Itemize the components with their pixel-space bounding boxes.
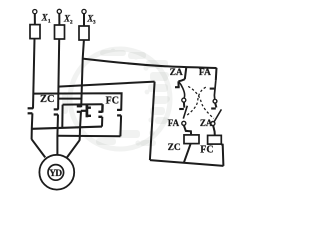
label X1 xyxy=(41,12,51,24)
coil ZC xyxy=(184,135,199,144)
mechanical linkage dashed cross (ZA to ZA-NC) xyxy=(188,86,214,118)
motor YD inner circle xyxy=(48,165,64,181)
wire: phase 1 below fuse to ZC contact xyxy=(33,39,35,109)
fuse X3 xyxy=(79,26,89,40)
wire: terminal 1 to fuse X1 xyxy=(34,14,36,25)
svg-text:FC: FC xyxy=(200,145,213,156)
wire: terminal 3 to fuse X3 xyxy=(83,14,85,26)
svg-text:2: 2 xyxy=(70,19,73,25)
motor YD outer circle xyxy=(39,155,74,190)
terminal circle phase 1 xyxy=(33,10,37,14)
contactor ZC main contact, phase 2 (lower tick) xyxy=(54,113,58,115)
svg-text:ZC: ZC xyxy=(168,143,181,153)
label X2 xyxy=(63,13,73,25)
wire: phase 1 below ZC contact to motor lead xyxy=(31,113,34,139)
wire: FC top bar xyxy=(63,103,103,105)
wire: control feed line from phase 3 (top line to right) xyxy=(83,59,217,68)
wire: line A from phase 2 to control return riser xyxy=(58,82,154,87)
wire: bus2 from phase 2 to FC right contact xyxy=(57,135,120,138)
wire: ZA NC to FC coil xyxy=(213,126,215,136)
contactor ZC main contact, phase 1 (lower tick) xyxy=(28,112,33,114)
wire: FA button to ZA NC contact xyxy=(215,103,216,107)
wire: control bottom line xyxy=(150,160,224,166)
contactor FC middle contact column (lower hook) xyxy=(98,116,102,118)
svg-text:FC: FC xyxy=(106,96,119,107)
pushbutton ZA (NO) fixed tick xyxy=(175,86,180,88)
wire: phase 3 slanted motor lead xyxy=(67,140,80,157)
terminal circle phase 3 xyxy=(82,9,86,13)
label X3 xyxy=(86,14,96,26)
contactor FC main contact, right column (lower tick) xyxy=(117,114,121,116)
pushbutton ZA (NO) movable contact xyxy=(179,82,185,98)
svg-text:FA: FA xyxy=(199,68,211,78)
svg-text:ZA: ZA xyxy=(170,68,183,78)
coil FC xyxy=(208,135,222,144)
pushbutton ZA (NO) jog xyxy=(178,79,184,81)
pushbutton ZA NC contact fixed tick xyxy=(211,107,216,109)
wire: ZC coil to bottom line xyxy=(184,144,191,163)
wire: ZA button to FA NC contact xyxy=(183,102,185,108)
pushbutton FA (NO) movable contact xyxy=(214,80,215,99)
pushbutton FA terminal circle xyxy=(213,99,217,103)
wire: tick from phase 3 to FC left bar xyxy=(81,110,87,112)
wire: phase 3 below ZC contact to motor lead xyxy=(80,111,81,141)
contactor ZC main contact, phase 2 (upper tick) xyxy=(54,108,59,110)
wire: FA NC to ZC coil xyxy=(184,125,191,134)
fuse X2 xyxy=(55,25,65,39)
wire: FC right contact down to bus2 corner xyxy=(119,115,122,136)
svg-text:3: 3 xyxy=(93,20,96,26)
pushbutton ZA NC terminal circle xyxy=(211,122,215,126)
wire: phase 2 below ZC contact to motor xyxy=(56,115,59,155)
wire: phase 3 below fuse to ZC contact xyxy=(81,40,84,107)
contactor ZC main contact, phase 3 (upper tick) xyxy=(77,105,81,107)
svg-text:ZC: ZC xyxy=(40,94,55,105)
contactor ZC main contact, phase 1 (upper tick) xyxy=(28,107,33,109)
svg-text:1: 1 xyxy=(48,19,51,25)
watermark stamp ring xyxy=(70,49,170,149)
fuse X1 xyxy=(30,25,40,39)
svg-text:YD: YD xyxy=(49,169,62,179)
contactor FC middle contact column (upper part with hook) xyxy=(101,104,104,112)
contactor FC main contact, right column (upper tick) xyxy=(117,109,121,111)
wire: phase 1 slanted motor lead xyxy=(32,139,46,157)
contactor ZC main contact, phase 3 (lower tick) xyxy=(77,111,81,113)
pushbutton FA NC movable contact xyxy=(183,106,187,119)
pushbutton FA NC terminal circle xyxy=(182,121,186,125)
pushbutton ZA terminal circle xyxy=(182,98,186,102)
svg-text:FA: FA xyxy=(168,118,180,128)
svg-text:ZA: ZA xyxy=(200,118,213,128)
pushbutton ZA (NO) left drop xyxy=(177,81,179,86)
wire: control return riser (right side of main area) xyxy=(150,82,155,160)
pushbutton FA NC contact fixed tick xyxy=(179,108,184,110)
wire: terminal 2 to fuse X2 xyxy=(58,14,60,25)
wire: line C bridge phase2 to phase3 xyxy=(58,98,81,100)
pushbutton FA (NO) fixed tick xyxy=(210,88,215,90)
pushbutton FA (NO) stub from top line xyxy=(215,68,218,81)
wire: line B from phase 1 to FC vertical contact xyxy=(34,93,122,110)
wire: bus1 from phase 1 to FC middle contact xyxy=(32,127,102,129)
contactor FC left contact bar (hangs from top bar) xyxy=(86,104,89,117)
mechanical linkage dashed cross (FA to FA-NC) xyxy=(186,87,205,115)
wire: bottom riser to FC coil xyxy=(221,144,223,166)
wire: FC top bar left drop to bus1 xyxy=(61,105,63,128)
wire: phase 2 below fuse to ZC contact xyxy=(58,39,59,110)
pushbutton ZA NC movable contact xyxy=(214,109,221,121)
terminal circle phase 2 xyxy=(57,9,61,13)
pushbutton ZA (NO) stub from top line xyxy=(185,67,187,79)
watermark speckle texture xyxy=(62,49,170,146)
